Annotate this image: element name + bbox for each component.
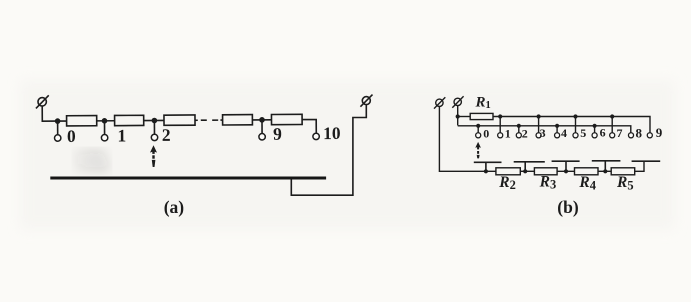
- svg-text:(a): (a): [164, 197, 185, 217]
- svg-text:5: 5: [580, 126, 586, 140]
- svg-text:2: 2: [522, 126, 528, 140]
- svg-text:7: 7: [617, 126, 623, 140]
- svg-text:3: 3: [540, 126, 546, 140]
- svg-text:4: 4: [561, 126, 567, 140]
- svg-text:9: 9: [273, 124, 282, 144]
- svg-text:2: 2: [162, 125, 171, 145]
- svg-text:1: 1: [505, 126, 511, 140]
- svg-text:10: 10: [323, 123, 341, 143]
- svg-text:9: 9: [656, 125, 663, 140]
- svg-text:8: 8: [635, 126, 642, 141]
- svg-text:1: 1: [117, 125, 126, 145]
- svg-text:0: 0: [67, 126, 76, 146]
- svg-text:0: 0: [483, 126, 489, 140]
- svg-text:6: 6: [600, 126, 606, 140]
- svg-text:(b): (b): [557, 197, 579, 217]
- svg-text:1 0704: 1 0704: [75, 149, 106, 161]
- svg-text:0 0168: 0 0168: [78, 161, 109, 173]
